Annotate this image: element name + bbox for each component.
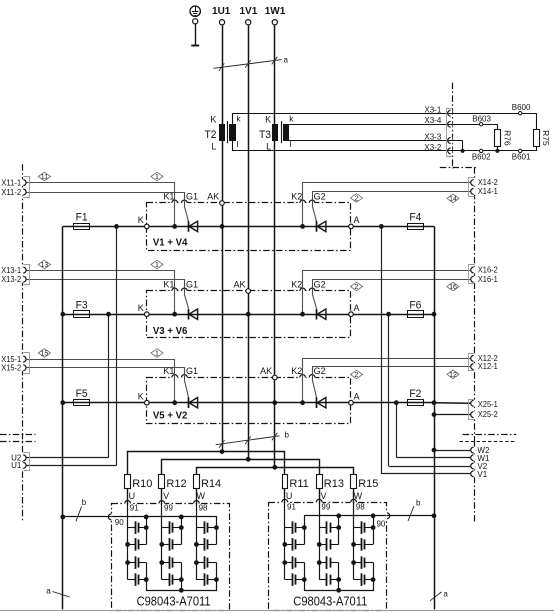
svg-text:K: K (265, 114, 271, 124)
svg-text:B600: B600 (512, 103, 531, 112)
svg-text:X12-1: X12-1 (478, 361, 498, 371)
svg-text:2: 2 (355, 372, 359, 379)
svg-text:K1: K1 (163, 192, 174, 202)
svg-text:A: A (354, 392, 360, 402)
svg-text:B602: B602 (472, 152, 491, 161)
svg-text:K1: K1 (163, 280, 174, 290)
svg-text:U1: U1 (11, 461, 22, 470)
svg-text:b: b (285, 431, 290, 440)
svg-text:C98043-A7011: C98043-A7011 (293, 594, 367, 608)
svg-text:R15: R15 (358, 478, 378, 490)
svg-text:K: K (138, 392, 144, 402)
svg-text:98: 98 (356, 502, 365, 511)
svg-text:X3-2: X3-2 (424, 143, 441, 152)
svg-text:X11-2: X11-2 (1, 187, 21, 197)
svg-text:K: K (138, 215, 144, 225)
svg-text:1U1: 1U1 (212, 6, 231, 17)
svg-text:G2: G2 (314, 192, 326, 202)
svg-text:15: 15 (41, 351, 49, 358)
svg-text:K: K (138, 303, 144, 313)
svg-text:F6: F6 (409, 300, 421, 312)
svg-text:B603: B603 (472, 115, 491, 124)
svg-text:F3: F3 (76, 300, 88, 312)
svg-text:K2: K2 (291, 366, 302, 376)
svg-text:12: 12 (449, 372, 457, 379)
svg-text:2: 2 (355, 284, 359, 291)
svg-text:K: K (210, 114, 216, 124)
svg-text:2: 2 (355, 195, 359, 202)
svg-text:X3-3: X3-3 (424, 132, 441, 141)
svg-text:K2: K2 (291, 280, 302, 290)
svg-text:a: a (443, 589, 448, 598)
svg-text:F5: F5 (76, 388, 88, 400)
svg-text:R12: R12 (166, 478, 186, 490)
svg-text:V: V (320, 491, 326, 501)
svg-text:99: 99 (164, 504, 173, 513)
svg-text:X25-2: X25-2 (478, 409, 498, 419)
svg-text:R10: R10 (132, 478, 152, 490)
svg-text:11: 11 (41, 174, 48, 181)
svg-text:b: b (82, 498, 87, 507)
svg-text:90: 90 (376, 519, 385, 528)
svg-text:K2: K2 (291, 192, 302, 202)
svg-text:G1: G1 (186, 366, 198, 376)
svg-text:V3 + V6: V3 + V6 (153, 326, 188, 337)
svg-text:AK: AK (233, 280, 245, 290)
svg-text:R11: R11 (289, 478, 308, 490)
svg-text:U: U (286, 491, 293, 501)
svg-text:L: L (211, 141, 216, 151)
svg-text:G1: G1 (186, 192, 198, 202)
svg-text:T3: T3 (259, 129, 271, 141)
svg-text:l: l (237, 139, 239, 149)
svg-text:X16-1: X16-1 (478, 274, 498, 284)
svg-text:W: W (196, 491, 205, 501)
svg-text:A: A (354, 215, 360, 225)
svg-text:U: U (129, 491, 136, 501)
svg-text:F1: F1 (76, 212, 88, 224)
svg-text:R13: R13 (324, 478, 344, 490)
svg-text:1: 1 (155, 262, 159, 269)
svg-text:V5 + V2: V5 + V2 (153, 411, 188, 422)
svg-text:V1 + V4: V1 + V4 (153, 238, 188, 249)
svg-text:X14-1: X14-1 (478, 186, 498, 196)
svg-text:a: a (284, 56, 289, 65)
svg-text:90: 90 (115, 518, 124, 527)
svg-text:a: a (46, 586, 51, 595)
svg-text:C98043-A7011: C98043-A7011 (137, 594, 211, 608)
svg-text:AK: AK (260, 366, 272, 376)
svg-text:98: 98 (199, 504, 208, 513)
svg-text:W: W (354, 491, 363, 501)
svg-text:L: L (266, 141, 271, 151)
svg-text:R75: R75 (541, 130, 551, 146)
svg-text:F2: F2 (409, 388, 421, 400)
svg-text:F4: F4 (409, 212, 421, 224)
svg-text:A: A (354, 303, 360, 313)
svg-text:K1: K1 (163, 366, 174, 376)
svg-text:AK: AK (207, 192, 219, 202)
svg-text:13: 13 (41, 262, 49, 269)
svg-text:X3-1: X3-1 (424, 105, 441, 114)
svg-text:k: k (289, 114, 294, 124)
svg-text:T2: T2 (205, 129, 217, 141)
svg-text:16: 16 (449, 284, 457, 291)
svg-text:91: 91 (287, 502, 296, 511)
svg-text:99: 99 (321, 502, 330, 511)
svg-text:B601: B601 (512, 152, 531, 161)
svg-text:1: 1 (155, 174, 159, 181)
svg-text:G2: G2 (314, 366, 326, 376)
svg-text:R76: R76 (503, 130, 513, 146)
svg-text:X25-1: X25-1 (478, 399, 498, 409)
svg-text:k: k (236, 114, 241, 124)
svg-text:91: 91 (130, 504, 139, 513)
svg-text:X15-2: X15-2 (1, 363, 21, 373)
svg-text:l: l (289, 139, 291, 149)
svg-text:1V1: 1V1 (240, 6, 258, 17)
svg-text:1W1: 1W1 (265, 6, 286, 17)
svg-text:14: 14 (449, 196, 457, 203)
svg-text:V: V (163, 491, 169, 501)
svg-text:1: 1 (155, 351, 159, 358)
svg-text:X3-4: X3-4 (424, 116, 441, 125)
svg-text:R14: R14 (201, 478, 221, 490)
svg-text:V1: V1 (477, 470, 487, 479)
svg-text:G1: G1 (186, 280, 198, 290)
svg-text:b: b (416, 498, 421, 507)
svg-text:G2: G2 (314, 280, 326, 290)
svg-text:X13-2: X13-2 (1, 274, 21, 284)
